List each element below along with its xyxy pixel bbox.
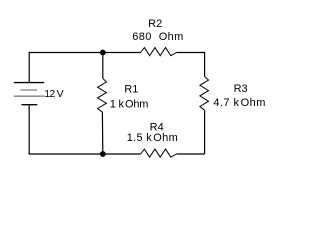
wire right rail upper <box>204 52 206 77</box>
wire left rail upper <box>28 52 30 83</box>
svg-text:R1: R1 <box>124 84 138 96</box>
wire right rail lower <box>204 110 206 154</box>
battery V1 short gray plate <box>21 89 38 91</box>
wire bottom rail left of R4 <box>103 153 141 155</box>
wire left rail lower <box>29 105 103 154</box>
svg-text:12 V: 12 V <box>44 88 63 100</box>
wire top rail right <box>176 52 204 54</box>
svg-text:1 kOhm: 1 kOhm <box>110 99 149 111</box>
battery V1 bottom plate <box>22 104 38 106</box>
node A dot top <box>100 50 106 56</box>
wire R1 branch bottom <box>101 112 103 154</box>
wire bottom rail right of R4 <box>176 153 204 155</box>
node B dot bottom <box>100 151 106 157</box>
svg-text:R2: R2 <box>148 18 162 30</box>
resistor R4 <box>141 149 177 157</box>
svg-text:R3: R3 <box>234 83 248 95</box>
svg-text:4.7 kOhm: 4.7 kOhm <box>213 97 265 109</box>
wire R1 branch top <box>102 53 104 79</box>
resistor R2 <box>141 48 177 56</box>
resistor R3 <box>200 77 209 111</box>
battery V1 top plate <box>14 82 44 84</box>
svg-text:1.5 kOhm: 1.5 kOhm <box>127 132 178 144</box>
resistor R1 <box>98 78 107 112</box>
svg-text:680 Ohm: 680 Ohm <box>132 31 184 43</box>
wire top rail <box>29 52 140 54</box>
battery V1 long gray plate <box>14 95 45 97</box>
